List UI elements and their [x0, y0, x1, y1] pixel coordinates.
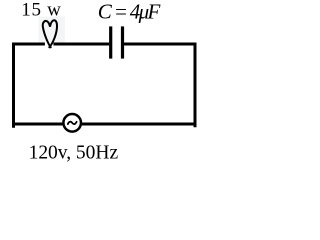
AC source circle [63, 114, 81, 132]
wire left vertical [12, 43, 15, 128]
capacitor C left plate [109, 26, 112, 58]
svg-text:C = 4μF: C = 4μF [98, 0, 161, 23]
AC source tilde [68, 122, 77, 124]
svg-text:120v, 50Hz: 120v, 50Hz [29, 143, 119, 164]
wire bottom-left segment [12, 123, 63, 126]
lamp background patch [39, 17, 66, 43]
wire top-middle segment [53, 43, 109, 46]
wire right vertical [194, 43, 197, 128]
svg-text:15 w: 15 w [21, 0, 61, 21]
lamp L1 15 W bulb loop [43, 20, 57, 47]
wire top-right segment [124, 43, 197, 46]
wire top-left segment [12, 43, 45, 46]
capacitor C right plate [121, 26, 124, 58]
wire bottom-right segment [82, 123, 197, 126]
